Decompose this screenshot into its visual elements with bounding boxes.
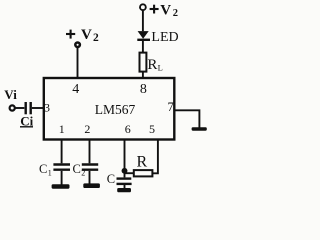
svg-text:R: R <box>147 57 157 73</box>
svg-text:5: 5 <box>149 122 155 136</box>
svg-text:2: 2 <box>93 32 99 44</box>
svg-text:2: 2 <box>84 122 90 136</box>
svg-text:8: 8 <box>140 82 147 97</box>
svg-text:R: R <box>137 153 148 170</box>
svg-text:C: C <box>39 162 47 176</box>
svg-text:Vi: Vi <box>4 87 17 102</box>
svg-text:4: 4 <box>72 82 79 97</box>
svg-text:C: C <box>73 162 81 176</box>
svg-text:V: V <box>160 2 171 18</box>
svg-text:2: 2 <box>173 8 178 19</box>
svg-text:1: 1 <box>48 169 52 178</box>
svg-text:3: 3 <box>44 101 50 115</box>
svg-text:L: L <box>158 63 163 73</box>
svg-text:6: 6 <box>125 122 131 136</box>
svg-text:1: 1 <box>59 122 65 136</box>
svg-text:2: 2 <box>81 169 85 178</box>
svg-text:LED: LED <box>151 30 178 45</box>
svg-text:C: C <box>107 172 115 186</box>
svg-text:Ci: Ci <box>20 113 33 128</box>
svg-text:LM567: LM567 <box>95 102 136 117</box>
svg-text:7: 7 <box>168 100 174 114</box>
svg-text:V: V <box>81 27 92 43</box>
